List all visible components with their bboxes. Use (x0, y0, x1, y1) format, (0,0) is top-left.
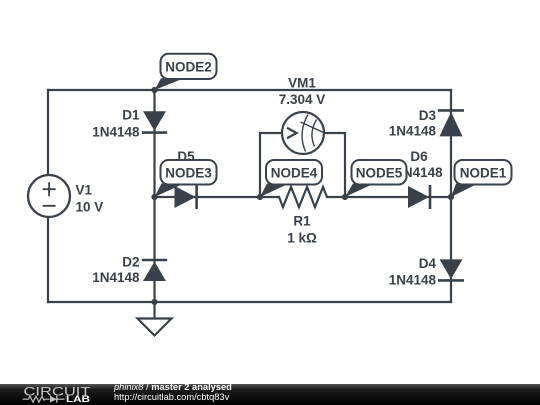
diode D4 (438, 259, 464, 280)
svg-text:V1: V1 (76, 183, 93, 198)
label V1 value (76, 183, 104, 215)
svg-text:R1: R1 (293, 214, 311, 229)
junction node NODE3 (151, 194, 157, 200)
wire left rail lower (47, 217, 49, 302)
ground (138, 302, 172, 336)
label VM1 value (279, 76, 326, 108)
label D3 value (389, 108, 437, 139)
junction node ground (151, 299, 157, 305)
junction node at top of middle rail (151, 87, 157, 93)
wire middle horizontal right (327, 196, 451, 198)
svg-text:NODE1: NODE1 (460, 166, 507, 181)
node NODE3 (155, 160, 217, 197)
svg-text:D4: D4 (419, 256, 437, 271)
diode D2 (142, 260, 167, 281)
node NODE1 (451, 160, 512, 197)
svg-text:D1: D1 (122, 108, 140, 123)
diode D5 (175, 185, 197, 209)
wire voltmeter right lead (324, 133, 345, 197)
svg-text:1N4148: 1N4148 (389, 273, 437, 288)
svg-text:NODE3: NODE3 (165, 166, 212, 181)
footer logo resistor-diode glyph (23, 396, 65, 403)
label D5 value (162, 149, 210, 180)
svg-text:NODE5: NODE5 (356, 166, 403, 181)
resistor R1 (279, 187, 327, 207)
svg-text:1N4148: 1N4148 (389, 124, 437, 139)
label D2 value (92, 255, 140, 286)
wire middle vertical rail (153, 90, 155, 302)
label D4 value (389, 256, 437, 288)
junction node NODE1 (448, 194, 454, 200)
voltage source V1 (28, 175, 70, 217)
diode D6 (408, 185, 430, 209)
svg-text:NODE2: NODE2 (165, 60, 212, 75)
label D1 value (92, 108, 140, 140)
wire left rail upper (47, 90, 49, 175)
svg-text:phinix8 / master 2 analysed: phinix8 / master 2 analysed (113, 382, 232, 392)
svg-text:D6: D6 (410, 149, 428, 164)
svg-text:1N4148: 1N4148 (92, 270, 140, 285)
wire voltmeter left lead (260, 133, 283, 197)
node NODE4 (260, 160, 322, 197)
node NODE5 (345, 160, 407, 197)
svg-text:NODE4: NODE4 (271, 166, 318, 181)
svg-text:D2: D2 (122, 255, 139, 270)
svg-text:1N4148: 1N4148 (92, 125, 140, 140)
svg-text:VM1: VM1 (288, 76, 316, 91)
junction node NODE5 (342, 194, 348, 200)
footer bar (0, 384, 540, 405)
svg-text:10 V: 10 V (76, 200, 104, 215)
wire bottom rail (48, 301, 451, 303)
svg-text:LAB: LAB (66, 394, 90, 405)
wire right rail (450, 90, 452, 302)
wire top rail (48, 89, 451, 91)
svg-text:http://circuitlab.com/cbtq83v: http://circuitlab.com/cbtq83v (114, 392, 230, 402)
svg-text:1 kΩ: 1 kΩ (287, 231, 317, 246)
diode D1 (142, 111, 167, 132)
node NODE2 (155, 54, 217, 90)
wire middle horizontal left (155, 196, 280, 198)
label R1 value (287, 214, 317, 246)
voltmeter VM1 (282, 112, 324, 154)
svg-text:7.304 V: 7.304 V (279, 92, 326, 107)
diode D3 (438, 110, 464, 136)
label D6 value (395, 149, 443, 180)
svg-text:D3: D3 (419, 108, 437, 123)
junction node NODE4 (257, 194, 263, 200)
